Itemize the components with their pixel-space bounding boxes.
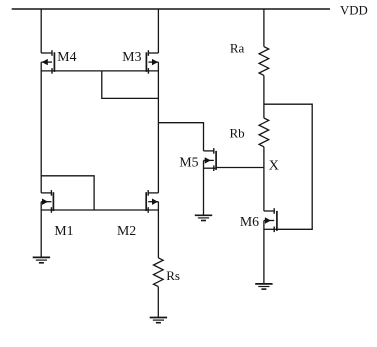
M2 body lead bbox=[148, 201, 158, 203]
M1 drain channel tick bbox=[50, 190, 52, 196]
wire middle branch upper (VDD to M3 source) bbox=[157, 9, 159, 53]
M6 gate bar bbox=[276, 211, 278, 231]
M2 drain channel tick bbox=[147, 190, 149, 196]
ground M5 bbox=[195, 215, 212, 220]
wire M5 drain link bbox=[158, 123, 203, 151]
M3 body arrow bbox=[152, 59, 158, 65]
ground M6 bbox=[255, 284, 272, 289]
transistor M2 bbox=[146, 190, 158, 213]
svg-text:X: X bbox=[269, 158, 279, 173]
wire middle branch (M3 drain down to M2 drain) bbox=[157, 62, 159, 193]
M3 source lead bbox=[148, 52, 158, 54]
wire left branch (M4 drain down to M1 drain) bbox=[40, 62, 42, 193]
M5 gate bar bbox=[215, 151, 217, 170]
M6 body lead bbox=[264, 220, 274, 222]
M2 gate bar bbox=[145, 192, 147, 211]
M4 gate bar bbox=[53, 52, 55, 72]
wire Ra to Rb bbox=[263, 75, 265, 118]
wire M3 diode connection (gates to M3 drain) bbox=[102, 71, 159, 99]
resistor Ra bbox=[259, 47, 269, 76]
transistor M3 bbox=[146, 50, 158, 73]
M1 source channel tick bbox=[50, 207, 52, 213]
svg-text:M1: M1 bbox=[54, 223, 73, 238]
M5 body arrow bbox=[205, 157, 211, 163]
M1 drain lead bbox=[41, 192, 51, 194]
svg-text:Ra: Ra bbox=[230, 41, 245, 56]
M3 source channel tick bbox=[147, 50, 149, 56]
M2 body arrow bbox=[152, 199, 158, 205]
M5 drain channel tick bbox=[213, 148, 215, 154]
wire M1 diode connection (drain to gate) bbox=[41, 176, 94, 210]
wire M1 source to ground bbox=[40, 202, 42, 258]
M4 source channel tick bbox=[51, 50, 53, 56]
M5 drain lead bbox=[204, 150, 214, 152]
svg-text:M3: M3 bbox=[122, 49, 141, 64]
wire VDD rail bbox=[12, 8, 330, 10]
resistor Rs bbox=[154, 258, 164, 287]
M6 drain channel tick bbox=[273, 208, 275, 214]
wire right feedback loop (Ra-Rb node to M6 gate) bbox=[264, 104, 312, 229]
wire M1/M2 gate line and drain leads bbox=[41, 209, 158, 211]
M6 source lead bbox=[264, 228, 277, 230]
wire M5 source to ground bbox=[203, 160, 205, 215]
svg-text:Rb: Rb bbox=[230, 125, 245, 140]
M4 body arrow bbox=[42, 59, 48, 65]
transistor M4 bbox=[41, 50, 54, 73]
M3 drain channel tick bbox=[147, 68, 149, 74]
wire Rs to ground bbox=[157, 287, 159, 318]
wire Rb to M6 drain (through node X) bbox=[263, 147, 265, 211]
transistor M1 bbox=[41, 190, 53, 213]
svg-text:VDD: VDD bbox=[340, 4, 368, 18]
M4 source lead bbox=[41, 52, 52, 54]
svg-text:Rs: Rs bbox=[166, 268, 180, 283]
svg-text:M2: M2 bbox=[117, 223, 136, 238]
M5 source lead bbox=[204, 167, 217, 169]
transistor M5 bbox=[204, 148, 217, 171]
M6 source channel tick bbox=[273, 227, 275, 233]
M6 drain lead bbox=[264, 210, 274, 212]
M2 source channel tick bbox=[147, 207, 149, 213]
M6 body arrow bbox=[265, 217, 271, 223]
M3 gate bar bbox=[145, 52, 147, 72]
ground Rs bbox=[150, 318, 167, 323]
M3 body lead bbox=[148, 61, 158, 63]
ground M1 bbox=[33, 257, 50, 262]
M4 drain channel tick bbox=[51, 68, 53, 74]
wire M4/M3 gate line and drain leads bbox=[41, 70, 158, 72]
transistor M6 bbox=[264, 208, 277, 232]
wire M5 gate to node X bbox=[216, 167, 264, 169]
svg-text:M4: M4 bbox=[57, 49, 76, 64]
svg-text:M5: M5 bbox=[179, 154, 198, 169]
M1 body arrow bbox=[42, 199, 48, 205]
resistor Rb bbox=[259, 118, 269, 147]
svg-text:M6: M6 bbox=[240, 214, 259, 229]
M1 body lead bbox=[41, 201, 51, 203]
M5 source channel tick bbox=[213, 165, 215, 171]
M4 body lead bbox=[41, 61, 52, 63]
wire right branch (VDD to Ra) bbox=[263, 9, 265, 47]
M5 body lead bbox=[204, 159, 214, 161]
M1 gate bar bbox=[52, 192, 54, 211]
wire left branch upper (VDD to M4 source) bbox=[40, 9, 42, 53]
wire M2 source to Rs bbox=[157, 202, 159, 258]
M2 drain lead bbox=[148, 192, 158, 194]
wire M6 source to ground bbox=[263, 221, 265, 284]
